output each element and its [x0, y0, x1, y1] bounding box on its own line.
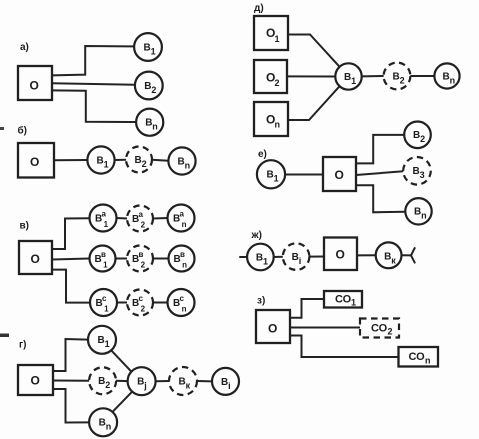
svg-text:О: О — [335, 168, 344, 182]
svg-text:n: n — [182, 261, 187, 270]
svg-text:ж): ж) — [251, 230, 262, 241]
svg-text:j: j — [143, 381, 147, 391]
svg-text:а): а) — [20, 42, 29, 53]
svg-text:2: 2 — [142, 159, 147, 169]
svg-text:с: с — [102, 294, 107, 303]
svg-text:а: а — [102, 210, 107, 219]
svg-text:О: О — [268, 322, 277, 336]
svg-text:О: О — [30, 155, 39, 169]
svg-text:О: О — [336, 248, 345, 262]
svg-text:а: а — [180, 210, 185, 219]
svg-text:2: 2 — [141, 261, 146, 270]
svg-text:з): з) — [257, 296, 265, 307]
svg-text:n: n — [185, 160, 191, 170]
svg-text:2: 2 — [275, 78, 280, 88]
svg-text:О: О — [31, 252, 40, 266]
svg-text:в: в — [180, 250, 185, 259]
svg-text:1: 1 — [275, 34, 280, 44]
svg-text:СО: СО — [371, 323, 388, 335]
svg-text:в): в) — [20, 221, 29, 232]
svg-text:i: i — [228, 381, 231, 391]
svg-text:1: 1 — [104, 159, 109, 169]
svg-text:1: 1 — [104, 220, 109, 229]
svg-text:е): е) — [258, 149, 267, 160]
svg-text:n: n — [421, 211, 427, 221]
svg-text:в: в — [101, 250, 106, 259]
svg-text:n: n — [275, 120, 281, 130]
svg-text:д): д) — [254, 3, 264, 14]
svg-text:1: 1 — [151, 46, 156, 56]
svg-text:2: 2 — [151, 85, 156, 95]
svg-text:n: n — [182, 220, 187, 229]
svg-text:1: 1 — [104, 305, 109, 314]
svg-text:в: в — [139, 250, 144, 259]
svg-text:к: к — [186, 380, 191, 390]
svg-text:2: 2 — [105, 380, 110, 390]
svg-text:а: а — [139, 210, 144, 219]
svg-text:СО: СО — [335, 294, 352, 306]
svg-text:1: 1 — [274, 174, 279, 184]
svg-text:2: 2 — [141, 221, 146, 230]
svg-text:О: О — [31, 374, 40, 388]
svg-text:n: n — [450, 75, 456, 85]
svg-text:n: n — [425, 356, 431, 366]
svg-text:2: 2 — [388, 327, 393, 337]
svg-text:1: 1 — [351, 76, 356, 86]
svg-text:i: i — [299, 256, 302, 266]
svg-text:б): б) — [18, 124, 28, 136]
svg-text:n: n — [106, 422, 112, 432]
svg-text:к: к — [391, 256, 396, 266]
svg-text:3: 3 — [420, 170, 425, 180]
svg-text:2: 2 — [141, 305, 146, 314]
svg-text:СО: СО — [409, 351, 426, 363]
svg-text:1: 1 — [105, 339, 110, 349]
svg-text:г): г) — [19, 340, 27, 351]
svg-text:О: О — [30, 79, 39, 93]
svg-text:n: n — [182, 305, 187, 314]
svg-text:2: 2 — [400, 75, 405, 85]
svg-text:1: 1 — [351, 298, 356, 308]
svg-text:2: 2 — [420, 134, 425, 144]
svg-text:1: 1 — [103, 261, 108, 270]
svg-text:1: 1 — [263, 256, 268, 266]
svg-text:n: n — [152, 122, 158, 132]
svg-text:с: с — [180, 294, 185, 303]
svg-text:с: с — [139, 294, 144, 303]
